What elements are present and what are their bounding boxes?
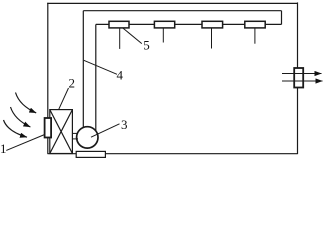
fan circle 3 (77, 127, 98, 148)
air handling unit cross diagonal a (50, 110, 73, 154)
exhaust vent on right wall (294, 68, 303, 88)
wire stub upper between unit and fan (72, 132, 78, 134)
svg-text:5: 5 (143, 38, 150, 53)
svg-text:4: 4 (117, 68, 124, 83)
svg-text:1: 1 (0, 141, 7, 156)
air handling unit box 2 (50, 110, 73, 154)
wire riser pipe right line (95, 24, 97, 133)
leader line to label 1 (6, 135, 44, 151)
intake louver 1 (45, 118, 52, 138)
svg-text:3: 3 (121, 117, 128, 132)
wire drop tick below diffuser 5b (162, 28, 164, 43)
wire supply duct top line (83, 10, 281, 12)
pump base pad (76, 151, 105, 157)
wire drop tick below diffuser 5d (254, 28, 256, 44)
outlet diffuser 5a (109, 21, 129, 28)
outlet diffuser 5d (245, 21, 265, 28)
svg-text:2: 2 (69, 75, 76, 90)
leader line to label 4 (84, 60, 117, 74)
intake air curved arrow bottom (4, 120, 28, 137)
wire supply duct right end (281, 11, 283, 25)
wire stub lower between unit and fan (72, 138, 78, 140)
wire room bottom wall (48, 153, 298, 155)
outlet diffuser 5b (154, 21, 174, 28)
wire room left wall lower segment (47, 138, 49, 154)
wire riser pipe left line 4 (82, 11, 84, 129)
leader line to label 2 (59, 88, 69, 109)
wire room left wall upper segment (47, 3, 49, 118)
air handling unit cross diagonal b (50, 110, 73, 154)
leader line to label 3 (91, 124, 120, 137)
wire drop tick below diffuser 5a (119, 28, 121, 49)
wire room right wall lower segment (297, 88, 299, 155)
intake air curved arrow top (16, 93, 37, 113)
outlet diffuser 5c (202, 21, 223, 28)
wire room top wall (47, 2, 297, 4)
intake air curved arrow middle (11, 107, 31, 127)
exhaust arrow upper (282, 73, 322, 75)
wire supply duct bottom line (96, 23, 282, 25)
wire drop tick below diffuser 5c (211, 28, 213, 49)
leader line to label 5 (123, 28, 142, 44)
wire room right wall upper segment (297, 2, 299, 68)
exhaust arrow lower (282, 80, 323, 82)
